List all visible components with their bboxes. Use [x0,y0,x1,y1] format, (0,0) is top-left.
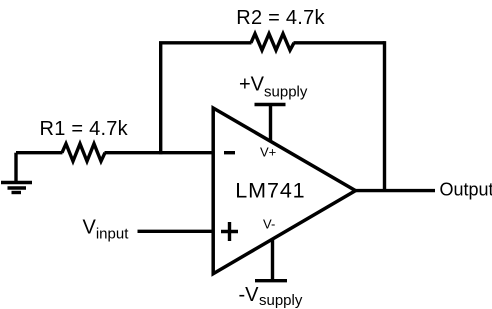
ground bar 3 [12,191,22,194]
ground bar 2 [8,186,27,189]
-V supply stem from V- pin [271,239,274,281]
svg-text:R2 = 4.7k: R2 = 4.7k [236,7,325,29]
wire: output [354,189,435,192]
svg-text:Output: Output [440,179,492,199]
svg-text:V+: V+ [260,145,276,160]
+V supply bar [255,103,286,106]
resistor R1 [62,144,105,162]
non-inverting input plus symbol [221,222,238,241]
wire: feedback drop to output node [383,41,386,191]
resistor R2 [251,34,294,51]
-V supply bar [255,279,287,282]
inverting input minus symbol [224,151,235,154]
svg-text:LM741: LM741 [235,178,305,202]
ground bar 1 [1,181,32,184]
wire: feedback top left segment [159,41,252,44]
wire: input left segment (ground to R1) [16,151,63,154]
svg-text:V-: V- [263,217,275,232]
+V supply stem to V+ pin [269,105,272,143]
wire: feedback top right segment [294,41,385,44]
ground stem [14,153,17,183]
wire: R1 to inverting input (node A) [105,151,215,154]
op-amp U1 (LM741 triangle) [213,108,355,274]
svg-text:R1 = 4.7k: R1 = 4.7k [40,118,129,140]
wire: non-inverting input [138,230,215,233]
wire: feedback riser from node A up [159,43,162,154]
